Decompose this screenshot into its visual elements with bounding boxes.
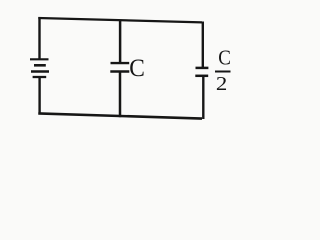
svg-text:2: 2 [216, 73, 227, 95]
wire middle lower (capacitor C down to bottom node) [119, 72, 122, 118]
wire left lower (battery down to bottom node) [38, 77, 40, 114]
wire middle upper (top node down to capacitor C) [119, 20, 122, 64]
wire top (battery positive node across to capacitors) [38, 18, 202, 22]
wire left upper (top node down to battery) [38, 17, 40, 59]
svg-text:C: C [129, 53, 145, 82]
wire right upper (top node down to capacitor C/2) [202, 22, 204, 68]
wire bottom (common bottom node) [38, 113, 202, 118]
wire right lower (capacitor C/2 down to bottom node) [202, 76, 204, 119]
battery B1 plate 1 (long top plate) [30, 58, 49, 60]
fraction bar of C/2 [215, 71, 231, 73]
battery B1 plate 3 (long plate) [31, 70, 49, 72]
battery B1 plate 4 (short bottom plate) [33, 76, 47, 78]
capacitor C/2 top plate [196, 67, 209, 70]
capacitor C top plate [111, 62, 130, 64]
svg-text:C: C [218, 46, 231, 70]
battery B1 plate 2 (short thick plate) [34, 64, 46, 67]
capacitor C bottom plate [110, 70, 129, 72]
capacitor C/2 bottom plate [195, 75, 208, 78]
